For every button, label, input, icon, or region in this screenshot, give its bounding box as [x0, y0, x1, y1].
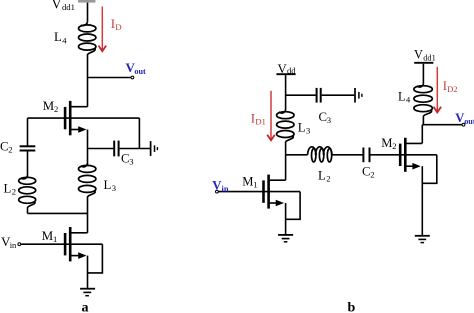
ground M1	[278, 235, 293, 242]
wire M1 source arrow	[270, 202, 276, 204]
capacitor C2	[20, 146, 36, 150]
svg-text:3: 3	[306, 126, 310, 136]
svg-text:L: L	[398, 89, 406, 103]
wire M1 body loop	[286, 192, 301, 220]
wire M1 drain	[270, 179, 286, 181]
wire L3 to main node	[285, 142, 287, 155]
svg-text:L: L	[318, 168, 326, 182]
svg-text:2: 2	[8, 145, 12, 155]
inductor L3	[79, 163, 96, 197]
svg-text:V: V	[414, 47, 423, 61]
svg-text:V: V	[52, 0, 62, 11]
wire Vdd to L3	[285, 75, 287, 109]
wire M1 source to ground	[285, 203, 287, 234]
wire gate rail to C2	[27, 118, 29, 145]
svg-text:D2: D2	[447, 84, 458, 94]
svg-text:V: V	[278, 62, 288, 76]
node Vin terminal	[216, 190, 219, 193]
wire L4 to M2 drain	[422, 116, 423, 143]
svg-text:L: L	[104, 178, 112, 192]
transistor M1	[65, 227, 70, 261]
inductor L4	[79, 21, 96, 55]
capacitor C2	[363, 148, 369, 163]
wire Vdd node to C3	[286, 94, 316, 96]
arrow ID (a)	[101, 7, 103, 51]
svg-text:dd: dd	[287, 66, 296, 76]
svg-text:4: 4	[62, 35, 67, 45]
svg-text:L: L	[298, 121, 306, 135]
svg-text:dd1: dd1	[423, 53, 436, 62]
wire M2 source arrow	[406, 165, 412, 167]
wire source node to C3	[88, 148, 114, 150]
wire Vin to M1 gate and body loop	[219, 191, 301, 193]
node Vout terminal	[462, 123, 465, 126]
svg-text:M: M	[381, 136, 392, 150]
supply rail Vdd bar	[276, 73, 295, 75]
node Vout tap wire	[422, 124, 462, 126]
svg-text:in: in	[10, 240, 17, 250]
supply rail Vdd1 bar	[414, 62, 433, 64]
svg-text:L: L	[54, 30, 62, 44]
svg-text:3: 3	[327, 115, 331, 125]
svg-text:M: M	[242, 174, 253, 188]
svg-text:V: V	[455, 111, 464, 125]
wire gate to C3 node	[138, 118, 140, 148]
wire M1 drain	[71, 232, 87, 234]
svg-text:1: 1	[253, 179, 257, 189]
inductor L3	[277, 109, 294, 142]
svg-text:a: a	[82, 301, 89, 313]
wire C3 node to L3	[87, 149, 89, 164]
capacitor C3	[317, 88, 321, 103]
wire M1 source arrow	[71, 255, 78, 257]
svg-text:C: C	[319, 110, 328, 124]
svg-text:C: C	[0, 140, 9, 154]
svg-text:2: 2	[370, 169, 374, 179]
wire L3 to M1 drain	[87, 197, 89, 233]
wire C3 to ground	[322, 94, 355, 96]
wire M2 gate rail	[28, 117, 140, 119]
svg-text:C: C	[362, 164, 371, 178]
wire L4 to M2 drain	[87, 54, 89, 106]
inductor L4	[414, 83, 432, 116]
wire M2 source arrow	[71, 129, 78, 131]
wire M1 drain to main node	[285, 155, 287, 180]
wire C2 to L2	[27, 151, 29, 175]
arrow ID2 (b)	[436, 67, 438, 112]
svg-text:out: out	[464, 117, 474, 126]
svg-text:dd1: dd1	[62, 2, 75, 12]
svg-text:4: 4	[406, 95, 411, 104]
arrow ID1 (b)	[270, 91, 272, 140]
ground M1	[80, 289, 95, 296]
transistor M2	[65, 101, 70, 135]
wire M2 source down	[87, 130, 89, 149]
svg-text:M: M	[43, 99, 54, 113]
svg-text:D1: D1	[255, 117, 266, 127]
capacitor C3	[114, 141, 118, 157]
svg-text:D: D	[115, 22, 121, 32]
wire L2 to bottom rail	[27, 208, 29, 214]
svg-text:in: in	[222, 184, 229, 193]
svg-text:2: 2	[54, 104, 58, 114]
svg-text:L: L	[4, 181, 12, 195]
ground (rotated) at C3	[355, 88, 362, 103]
wire M1 source to ground	[87, 256, 89, 288]
wire main node to L2	[286, 154, 308, 156]
ground (rotated) at C3	[151, 141, 158, 156]
node Vin terminal	[18, 243, 21, 246]
wire C3 to ground	[120, 148, 150, 150]
wire M2 body loop	[422, 155, 437, 184]
wire Vin to M1 gate and body loop	[21, 243, 103, 245]
transistor M2	[400, 138, 405, 172]
svg-text:2: 2	[12, 186, 16, 196]
wire M2 source to ground	[421, 166, 423, 235]
wire C2 to M2 gate and body loop	[371, 154, 437, 156]
inductor L2	[19, 175, 36, 208]
wire Vdd1 to L4	[87, 3, 89, 22]
wire M1 body loop	[88, 244, 103, 273]
wire M2 drain	[71, 106, 87, 108]
wire Vdd1 to L4	[422, 64, 424, 84]
wire M2 drain	[406, 142, 422, 144]
inductor L2 (horizontal)	[308, 147, 332, 162]
transistor M1	[264, 175, 269, 209]
ground M2	[415, 236, 430, 243]
supply rail Vdd1 bar (gray, clipped)	[78, 0, 96, 3]
wire bottom rail to L2	[28, 212, 88, 214]
wire L2 to C2	[332, 154, 363, 156]
svg-text:1: 1	[53, 234, 57, 244]
svg-text:3: 3	[112, 183, 116, 193]
node Vout tap wire	[88, 77, 131, 79]
svg-text:2: 2	[392, 141, 396, 151]
svg-text:C: C	[121, 151, 130, 165]
node Vout terminal	[131, 76, 134, 79]
svg-text:out: out	[134, 67, 146, 76]
svg-text:3: 3	[129, 156, 133, 166]
svg-text:2: 2	[326, 173, 330, 183]
svg-text:b: b	[348, 301, 356, 313]
svg-text:M: M	[42, 229, 53, 243]
